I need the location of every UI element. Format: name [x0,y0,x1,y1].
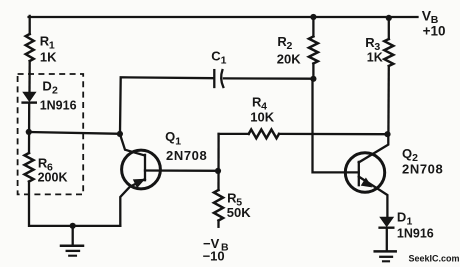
svg-text:10K: 10K [250,110,274,125]
node : Q1 collector junction [117,131,123,137]
wire : top VB power rail [29,16,418,18]
wire : R3 bottom lead down to R4 node [387,66,390,134]
diode D2 [23,92,36,102]
wire : collector node up and right to C1 left plate [120,77,213,133]
svg-text:2N708: 2N708 [166,148,207,163]
node : Q1 base / R4 / R5 junction [215,168,221,174]
capacitor C1 [214,70,223,87]
resistor R4 [249,130,279,139]
diode D1 [380,217,394,228]
watermark SeekIC.com [409,254,460,264]
ground (right, under D1) [375,251,396,261]
resistor R1 [26,34,34,61]
wire : R2 bottom lead to C1 node [312,64,314,79]
svg-text:2: 2 [52,84,58,96]
transistor Q2 [345,134,388,217]
svg-text:1: 1 [175,135,181,147]
wire : R1 bottom to D2 anode [28,61,31,93]
dashed box around D2 and R6 [18,74,84,194]
svg-text:Q: Q [165,129,175,144]
svg-text:−10: −10 [203,248,225,263]
svg-text:SeekIC.com: SeekIC.com [409,254,460,264]
label VB +10 supply [422,8,446,39]
label R1 1K [40,34,57,65]
svg-text:1N916: 1N916 [397,226,434,240]
wire : Q1 base lead to R4/R5 node [145,169,219,172]
svg-text:1N916: 1N916 [40,98,77,112]
wire : R5 bottom lead [217,221,219,227]
label C1 [211,49,226,67]
svg-text:D: D [397,209,406,224]
wire : D2 cathode down to R6 [28,103,31,153]
wire : R6 bottom to bottom-left rail [29,182,120,226]
node : ground junction on bottom wire [70,223,76,229]
label Q2 2N708 [402,146,443,176]
node : R2 / C1 / Q2-base junction [310,76,316,82]
wire : C1 right plate to R2 bottom node [224,77,313,80]
label R4 10K [250,94,274,124]
svg-text:2N708: 2N708 [402,161,443,176]
svg-text:+10: +10 [423,24,446,39]
wire : node column from R4 down to R5 [217,134,219,190]
svg-text:1: 1 [221,55,227,67]
label D1 1N916 [397,209,434,240]
svg-text:200K: 200K [38,170,68,184]
label -VB -10 supply [203,236,229,263]
label Q1 2N708 [165,129,207,163]
label R6 200K [38,155,68,184]
resistor R5 [214,190,223,221]
svg-text:2: 2 [287,40,293,52]
wire : R2 column down then right to Q2 base [313,79,359,173]
label R5 50K [227,191,251,220]
resistor R6 [25,153,34,182]
label D2 1N916 [40,78,77,112]
svg-text:20K: 20K [277,51,301,66]
wire : D1 cathode to ground [386,228,388,251]
wire : R4 right lead across R2 column to R3 column [279,133,387,136]
resistor R3 [384,39,393,66]
node : rail / R2 junction [310,14,316,20]
svg-text:1K: 1K [367,51,383,65]
wire : left column from rail to R1 [29,16,31,34]
node : rail / R3 junction [386,15,392,21]
label R3 1K [365,35,382,65]
node : R3 / R4 / Q2 collector junction [384,131,390,137]
resistor R2 [309,36,318,63]
transistor Q1 [120,134,160,226]
svg-text:Q: Q [402,146,412,161]
node : D2/R6 junction to collector wire [26,129,32,135]
wire : R3 top lead [388,18,390,40]
wire : diode node to Q1 collector node [29,132,120,134]
svg-text:1K: 1K [40,49,57,64]
label R2 20K [277,34,301,66]
svg-text:50K: 50K [227,205,251,220]
ground (left) [61,226,83,256]
wire : R4 left lead [219,133,249,135]
wire : R2 top lead [312,17,314,36]
svg-text:D: D [42,78,51,93]
